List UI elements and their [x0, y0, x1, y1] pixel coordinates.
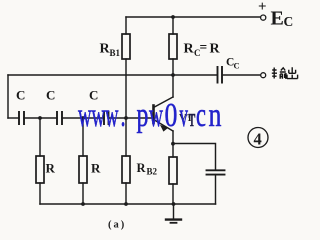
svg-text:v: v [180, 96, 189, 134]
wire RE bottom lead [172, 184, 174, 204]
resistor RE [169, 157, 177, 184]
svg-text:w: w [149, 95, 163, 133]
svg-text:R: R [137, 161, 147, 175]
wire RB1 top lead [125, 17, 127, 34]
wire R2 bottom lead [82, 183, 84, 204]
label circled 4 [248, 128, 268, 149]
svg-text:w: w [78, 96, 92, 133]
wire RC bottom lead [172, 59, 174, 75]
label VT [179, 113, 194, 124]
wire RB1 bottom lead to base node [125, 59, 127, 118]
label R1 [46, 161, 56, 176]
svg-text:C: C [234, 61, 240, 71]
svg-text:=: = [200, 40, 208, 55]
svg-text:w: w [92, 96, 106, 133]
svg-text:.: . [121, 97, 126, 135]
label CC [226, 57, 240, 71]
resistor RC [169, 34, 177, 59]
node dot C1-R1 [38, 116, 42, 120]
wire RE top lead [172, 144, 174, 157]
wire phase network segment 1 [8, 117, 19, 119]
node dot collector [171, 73, 175, 77]
wire R1 top lead [39, 118, 41, 156]
capacitor C2 [57, 112, 62, 124]
transistor VT [154, 97, 174, 144]
wire RC top lead [172, 17, 174, 34]
node dot base bias [124, 116, 128, 120]
svg-text:n: n [209, 96, 222, 134]
svg-text:R: R [91, 161, 101, 176]
wire CC to output terminal [223, 74, 261, 76]
wire R1 bottom lead [39, 183, 41, 204]
wire bypass cap bottom lead [215, 175, 217, 204]
svg-text:B1: B1 [110, 48, 121, 58]
label C2 [46, 88, 55, 103]
label figure (a) [108, 220, 126, 231]
svg-text:т: т [189, 103, 196, 132]
wire collector to transistor [172, 75, 174, 97]
label output 输出 [272, 67, 298, 79]
resistor R2 [79, 156, 87, 183]
capacitor CE bypass [207, 170, 225, 174]
label RC=R [184, 40, 221, 59]
node dot rail-ground [172, 202, 176, 206]
wire phase network segment 2 [24, 117, 57, 119]
label RB2 [137, 161, 158, 177]
resistor RB2 [122, 156, 130, 183]
terminal output [261, 73, 266, 78]
svg-text:R: R [210, 42, 221, 57]
wire R2 top lead [82, 118, 84, 156]
wire phase network segment 3 [62, 117, 104, 119]
capacitor C1 [19, 112, 24, 124]
resistor RB1 [122, 34, 130, 59]
svg-text:(a): (a) [108, 220, 126, 231]
svg-text:E: E [271, 8, 284, 30]
svg-text:R: R [184, 42, 195, 57]
watermark www.pw0vtcn [78, 95, 221, 134]
svg-text:C: C [284, 14, 294, 29]
resistor R1 [36, 156, 44, 183]
wire RB2 bottom lead [125, 183, 127, 204]
node dot C2-R2 [81, 116, 85, 120]
svg-text:4: 4 [254, 130, 262, 149]
wire bottom ground rail [40, 203, 216, 205]
svg-text:0: 0 [165, 96, 178, 134]
label C1 [16, 88, 25, 103]
svg-text:+: + [258, 0, 267, 15]
svg-text:B2: B2 [147, 167, 158, 177]
wire left feedback drop [7, 75, 9, 118]
label R2 [91, 161, 101, 176]
wire base lead [109, 117, 154, 119]
node dot rail-R2 [81, 202, 85, 206]
wire emitter node to bypass branch [173, 144, 216, 170]
svg-text:c: c [196, 96, 206, 134]
label C3 [89, 88, 98, 103]
label EC [271, 8, 294, 30]
capacitor CC output coupling [218, 67, 223, 83]
node dot emitter [171, 142, 175, 146]
terminal EC [261, 15, 266, 20]
wire RB2 top lead [125, 118, 127, 156]
node dot rail-RB2 [124, 202, 128, 206]
label RB1 [100, 42, 121, 59]
svg-text:C: C [46, 88, 55, 103]
ground [166, 204, 181, 223]
svg-text:R: R [46, 161, 56, 176]
node dot rail-RC [171, 15, 175, 19]
wire collector feedback line [8, 74, 217, 76]
svg-text:p: p [137, 97, 149, 134]
wire top supply rail [126, 16, 260, 18]
capacitor C3 [104, 112, 109, 124]
svg-text:C: C [16, 88, 25, 103]
label plus [258, 0, 267, 15]
svg-text:w: w [105, 96, 119, 133]
